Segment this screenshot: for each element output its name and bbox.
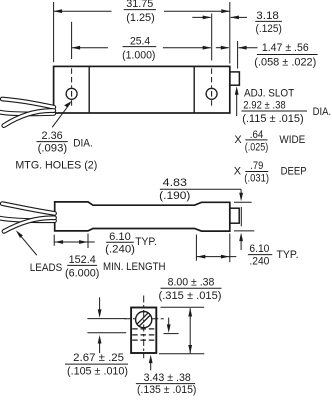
mounting hole leader arrow: [52, 101, 72, 127]
svg-text:(.240): (.240): [105, 243, 135, 255]
6.10 typ up arrow: [239, 233, 243, 250]
fraction bar 3.43: [136, 383, 195, 385]
svg-text:(.093): (.093): [38, 142, 68, 154]
svg-text:DEEP: DEEP: [281, 166, 307, 178]
tick left edge 6.10: [53, 235, 55, 246]
svg-text:.79: .79: [250, 160, 263, 172]
fraction bar .79: [245, 171, 268, 173]
dimension 8.00 vertical line: [188, 308, 192, 354]
svg-text:152.4: 152.4: [69, 254, 96, 266]
2.67 upper down arrow: [98, 297, 102, 318]
inner down arrow (leads plane): [167, 318, 171, 333]
right mounting hole: [206, 88, 217, 99]
2.67 upper reference line: [87, 318, 126, 320]
extension line right body edge (below): [229, 234, 231, 263]
svg-text:25.4: 25.4: [130, 35, 150, 47]
leads leader arrow: [16, 230, 37, 255]
svg-text:(6.000): (6.000): [65, 267, 99, 279]
screw slot line 1: [139, 315, 150, 326]
svg-text:(.058 ± .022): (.058 ± .022): [254, 57, 316, 69]
end view body: [131, 308, 156, 354]
fraction bar 6.10 right: [248, 254, 272, 256]
dimension 1.47 arrows: [216, 46, 258, 50]
svg-text:X: X: [234, 134, 242, 146]
fraction bar 2.36: [37, 141, 68, 143]
fraction bar 2.92: [241, 110, 307, 112]
svg-text:2.36: 2.36: [42, 130, 63, 142]
hidden lead lines (dashed): [132, 329, 155, 340]
extension line top (8.00): [161, 306, 205, 308]
screw slot line 2: [137, 313, 148, 324]
svg-text:(.135 ± .015): (.135 ± .015): [137, 384, 197, 396]
dimension 6.10 left line: [54, 240, 134, 244]
fraction bar .64: [245, 139, 267, 141]
fraction bar 2.67: [65, 363, 128, 365]
svg-text:2.67 ± .25: 2.67 ± .25: [73, 352, 124, 364]
left mounting hole: [66, 88, 77, 99]
2.67 lower up arrow: [98, 335, 102, 353]
dimension 25.4 line: [72, 46, 212, 50]
adj slot leader arrow: [235, 86, 239, 116]
svg-text:MTG. HOLES (2): MTG. HOLES (2): [15, 160, 97, 172]
dimension 31.75 line: [54, 9, 230, 13]
extension line left hole center: [71, 22, 73, 59]
svg-text:3.18: 3.18: [256, 10, 279, 22]
svg-text:3.43 ± .38: 3.43 ± .38: [144, 372, 191, 384]
top view body: [54, 66, 230, 113]
svg-text:(.315 ± .015): (.315 ± .015): [159, 290, 222, 302]
left hole centerline (dashed): [71, 68, 73, 107]
svg-text:2.92 ± .38: 2.92 ± .38: [243, 100, 285, 112]
top view right cap divider line: [193, 66, 195, 113]
svg-text:WIDE: WIDE: [279, 134, 305, 146]
svg-text:(.190): (.190): [159, 190, 190, 202]
extension line right hole center: [211, 14, 213, 61]
svg-text:DIA.: DIA.: [73, 137, 93, 149]
top view leads (wires): [0, 99, 54, 126]
extension of top edge (right): [234, 201, 252, 203]
adjustment screw circle: [136, 312, 152, 328]
4.83 leader with down arrow: [160, 189, 243, 201]
leads plane short line: [164, 333, 179, 335]
svg-text:TYP.: TYP.: [277, 249, 299, 261]
extension line right cap start: [195, 235, 197, 261]
extension line right body edge: [229, 2, 231, 64]
extension line left body edge: [53, 2, 55, 62]
svg-text:LEADS: LEADS: [30, 262, 62, 274]
svg-text:(.125): (.125): [256, 23, 282, 35]
svg-text:(1.25): (1.25): [126, 12, 155, 24]
tick step 6.10: [87, 234, 89, 249]
side view body: [55, 202, 230, 231]
svg-text:(.025): (.025): [245, 141, 268, 153]
svg-text:(1.000): (1.000): [122, 49, 155, 61]
svg-text:.64: .64: [250, 129, 263, 141]
dimension 3.18 arrows: [192, 16, 247, 20]
svg-text:4.83: 4.83: [163, 177, 187, 189]
top view left cap divider line: [88, 66, 90, 113]
svg-text:6.10: 6.10: [109, 231, 131, 243]
vertical centerline: [143, 296, 145, 359]
extension line bushing tip: [237, 41, 239, 69]
svg-text:X: X: [234, 166, 242, 178]
svg-text:DIA.: DIA.: [313, 106, 332, 118]
svg-text:1.47 ± .56: 1.47 ± .56: [262, 42, 309, 54]
svg-text:TYP.: TYP.: [135, 236, 157, 248]
svg-text:ADJ. SLOT: ADJ. SLOT: [244, 88, 294, 100]
fraction bar 8.00: [161, 287, 222, 289]
middle dimension segment at bushing: [240, 207, 242, 226]
fraction bar 3.18: [255, 20, 282, 22]
dimension 6.10 right line: [196, 255, 236, 259]
svg-text:MIN. LENGTH: MIN. LENGTH: [103, 261, 166, 273]
right hole centerline (dashed): [211, 68, 213, 107]
svg-text:(.105 ± .010): (.105 ± .010): [67, 365, 128, 377]
2.67 lower reference line: [87, 332, 126, 334]
extension line bottom (8.00): [159, 353, 204, 355]
svg-text:(.115 ± .015): (.115 ± .015): [242, 113, 304, 125]
adjustment bushing (top view): [230, 72, 240, 85]
svg-text:(.031): (.031): [244, 172, 269, 184]
svg-text:6.10: 6.10: [249, 243, 269, 255]
horizontal centerline: [125, 318, 164, 320]
fraction bar 1.47: [257, 54, 318, 56]
svg-text:8.00 ± .38: 8.00 ± .38: [168, 276, 215, 288]
svg-text:31.75: 31.75: [126, 0, 153, 10]
extension of bottom edge (right): [234, 230, 254, 232]
3.43 up arrow: [149, 355, 153, 371]
fraction bar 152.4: [67, 264, 97, 266]
svg-text:.240: .240: [249, 256, 269, 268]
side view leads (wires): [0, 204, 55, 232]
adjustment bushing (side view): [230, 208, 239, 223]
